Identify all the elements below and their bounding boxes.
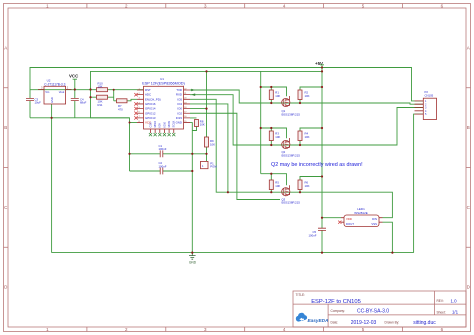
svg-text:MOSI: MOSI bbox=[167, 121, 171, 128]
svg-text:VDD: VDD bbox=[346, 217, 352, 221]
svg-text:GND: GND bbox=[189, 260, 197, 264]
svg-text:EasyEDA: EasyEDA bbox=[308, 318, 329, 323]
svg-text:RST: RST bbox=[145, 88, 151, 92]
svg-text:C-JT1117B-3.3: C-JT1117B-3.3 bbox=[44, 82, 65, 86]
svg-text:Company:: Company: bbox=[331, 309, 346, 313]
svg-text:100nF: 100nF bbox=[309, 233, 317, 237]
svg-text:RXD: RXD bbox=[176, 93, 182, 97]
svg-text:R11: R11 bbox=[98, 103, 103, 107]
svg-text:Date:: Date: bbox=[331, 321, 339, 325]
svg-text:10K: 10K bbox=[275, 135, 280, 139]
svg-text:CS0: CS0 bbox=[148, 122, 152, 128]
svg-text:BSS138P,215: BSS138P,215 bbox=[282, 201, 301, 205]
svg-text:ESP-12F to CN105: ESP-12F to CN105 bbox=[311, 299, 361, 305]
svg-text:TITLE:: TITLE: bbox=[296, 293, 306, 297]
svg-text:10K: 10K bbox=[305, 94, 310, 98]
svg-text:A: A bbox=[467, 46, 470, 51]
svg-text:IO15: IO15 bbox=[176, 116, 183, 120]
svg-text:VCC: VCC bbox=[69, 74, 79, 79]
svg-text:GPIO12: GPIO12 bbox=[145, 111, 156, 115]
svg-text:A: A bbox=[4, 46, 7, 51]
svg-text:IO5: IO5 bbox=[177, 97, 182, 101]
svg-text:10K: 10K bbox=[305, 184, 310, 188]
svg-text:10uF: 10uF bbox=[35, 101, 42, 105]
svg-text:REV:: REV: bbox=[437, 299, 444, 303]
svg-text:IO2: IO2 bbox=[177, 111, 182, 115]
svg-text:IO10: IO10 bbox=[162, 121, 166, 127]
svg-text:68uF: 68uF bbox=[80, 101, 87, 105]
svg-text:GPIO14: GPIO14 bbox=[145, 107, 156, 111]
svg-text:BSS138P,215: BSS138P,215 bbox=[282, 154, 301, 158]
svg-text:10K: 10K bbox=[275, 94, 280, 98]
svg-text:CC-BY-SA-3.0: CC-BY-SA-3.0 bbox=[357, 309, 389, 315]
svg-text:IO4: IO4 bbox=[177, 102, 182, 106]
svg-text:100nF: 100nF bbox=[159, 164, 167, 168]
svg-text:2019-12-03: 2019-12-03 bbox=[351, 320, 377, 326]
svg-text:ESP 12F(ESP8266MOD): ESP 12F(ESP8266MOD) bbox=[142, 81, 185, 85]
svg-text:Vin: Vin bbox=[45, 90, 49, 94]
svg-text:GPIO16: GPIO16 bbox=[145, 102, 156, 106]
svg-text:1/1: 1/1 bbox=[452, 310, 459, 315]
svg-text:10K: 10K bbox=[275, 184, 280, 188]
svg-text:Q2 may be incorrectly wired as: Q2 may be incorrectly wired as drawn! bbox=[271, 162, 363, 168]
svg-text:BSS138P,215: BSS138P,215 bbox=[282, 113, 301, 117]
svg-text:DIN: DIN bbox=[372, 217, 377, 221]
svg-text:MISO: MISO bbox=[153, 121, 157, 128]
svg-text:470: 470 bbox=[118, 107, 123, 111]
svg-text:CN105: CN105 bbox=[425, 94, 434, 98]
svg-text:10K: 10K bbox=[305, 135, 310, 139]
svg-text:GND: GND bbox=[176, 121, 182, 125]
svg-text:WS2812E: WS2812E bbox=[354, 211, 368, 215]
svg-text:DOUT: DOUT bbox=[346, 222, 354, 226]
svg-text:sitting.duc: sitting.duc bbox=[413, 320, 436, 326]
svg-text:100nF: 100nF bbox=[159, 147, 167, 151]
svg-text:GPIO13: GPIO13 bbox=[145, 116, 156, 120]
svg-text:PGM: PGM bbox=[210, 165, 217, 169]
svg-text:SCLK: SCLK bbox=[172, 120, 176, 127]
svg-text:10K: 10K bbox=[200, 123, 205, 127]
svg-text:IO9: IO9 bbox=[158, 123, 162, 128]
svg-text:ADC: ADC bbox=[145, 93, 151, 97]
svg-text:B: B bbox=[4, 125, 7, 130]
svg-text:10K: 10K bbox=[98, 84, 103, 88]
svg-text:VSS: VSS bbox=[371, 222, 377, 226]
svg-text:Vout: Vout bbox=[59, 90, 65, 94]
svg-text:1.0: 1.0 bbox=[450, 298, 457, 303]
svg-text:EN(CH_PD): EN(CH_PD) bbox=[145, 97, 161, 101]
svg-text:TXD: TXD bbox=[176, 88, 182, 92]
svg-text:Drawn By:: Drawn By: bbox=[385, 321, 400, 325]
svg-text:IO0: IO0 bbox=[177, 107, 182, 111]
svg-text:B: B bbox=[467, 125, 470, 130]
svg-text:10K: 10K bbox=[210, 142, 215, 146]
svg-text:Sheet:: Sheet: bbox=[437, 310, 446, 314]
svg-text:GND: GND bbox=[50, 97, 54, 103]
svg-text:U1: U1 bbox=[160, 77, 164, 81]
